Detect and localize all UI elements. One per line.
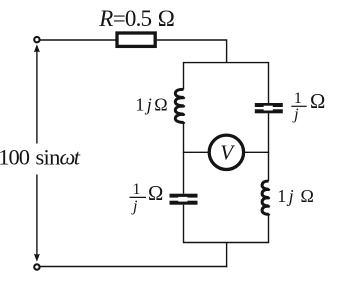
svg-text:1j: 1j [277,186,296,206]
svg-text:1: 1 [133,181,141,198]
label 1j ohm bottom-right [277,186,314,206]
svg-text:Ω: Ω [310,91,325,113]
svg-text:j: j [292,106,299,123]
wire left upper segment [36,51,38,144]
right branch lower wire [268,214,270,243]
svg-text:j: j [131,198,138,215]
svg-text:Ω: Ω [158,6,175,31]
svg-text:R: R [98,6,113,31]
inductor L2 coil 1j ohm [262,181,269,214]
bridge top edge wire [184,62,269,64]
left branch middle wire [183,123,185,194]
svg-text:1jΩ: 1jΩ [135,95,170,115]
svg-text:1: 1 [294,90,302,107]
wire bottom [40,266,227,268]
source polarity arrow down [34,254,40,262]
bridge bottom edge wire [184,242,269,244]
capacitor C1 plates (right) [255,103,283,113]
source polarity arrow up [34,44,40,52]
svg-text:=: = [113,6,126,31]
terminal top-left [34,37,39,42]
middle wire left [183,151,209,153]
right branch upper wire [268,62,270,103]
wire left lower segment [36,175,38,257]
svg-text:sin: sin [36,144,61,169]
svg-text:t: t [74,144,81,169]
resistor R [117,33,155,46]
voltmeter V [209,135,243,169]
bottom feed wire [226,243,228,268]
middle wire right [244,151,269,153]
label 1/j ohm right [291,90,325,123]
terminal bottom-left [34,264,39,269]
right branch middle wire [268,113,270,181]
source label 100 sin wt [0,144,81,169]
svg-text:Ω: Ω [301,186,314,206]
resistor label R = 0.5 Ohm [98,6,174,31]
svg-text:V: V [220,141,235,165]
capacitor C2 plates (bottom-left) [170,194,198,205]
svg-text:0.5: 0.5 [125,6,152,31]
left branch upper wire [183,62,185,90]
svg-text:Ω: Ω [148,183,163,205]
svg-text:100: 100 [0,144,30,169]
left branch lower wire [183,205,185,244]
wire top right (resistor to bridge top) [157,40,227,63]
label 1/j ohm bottom-left [130,181,164,215]
wire top (terminal to resistor) [40,39,116,41]
inductor L1 coil 1j ohm [175,89,184,122]
